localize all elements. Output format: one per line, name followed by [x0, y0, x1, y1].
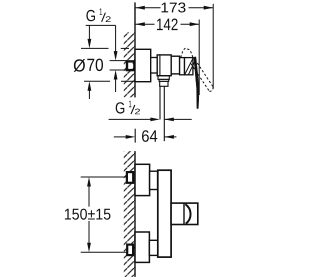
- lever hub diagonal 2: [188, 61, 195, 75]
- dimension 142 line left part: [135, 23, 154, 25]
- outlet pipe right wall: [163, 86, 165, 141]
- arrow 150 top: [87, 177, 91, 187]
- arrow 150 bottom: [87, 243, 91, 253]
- outlet flange: [158, 76, 169, 80]
- mixer body (top view): [157, 55, 171, 76]
- handle knob outer rect: [171, 203, 198, 224]
- 150 dim vertical line lower part: [88, 221, 90, 246]
- lever hub diagonal 1: [185, 58, 193, 74]
- arrow 64 left: [126, 135, 136, 139]
- lower union nut (bottom view): [127, 245, 133, 256]
- 150 dim vertical line upper part: [88, 184, 90, 207]
- wall face line (bottom view): [134, 151, 136, 277]
- arrow 173 right: [204, 6, 214, 10]
- lever ring: [180, 58, 185, 75]
- upper escutcheon (bottom view): [135, 164, 150, 195]
- wall union square nut (top view): [127, 61, 134, 70]
- arrow 142 left: [135, 22, 145, 26]
- handle knob end arc: [185, 204, 190, 224]
- mixer body (bottom view): [158, 170, 171, 257]
- 150 dimension upper leader: [81, 176, 127, 178]
- outlet ring: [159, 79, 169, 81]
- leader line of lower G 1/2 with arrow to pipe: [109, 118, 152, 120]
- dimension 64 left line: [114, 136, 129, 138]
- s-union shaft: [151, 58, 158, 74]
- outlet nut: [160, 81, 168, 86]
- lever dashed edge 2 (open position): [191, 64, 210, 92]
- extension line for 142 (front of lever): [198, 20, 200, 96]
- leader line under G 1/2 (top): [86, 24, 116, 26]
- arrow 142 right: [190, 22, 200, 26]
- dia70 bottom leader line: [84, 80, 110, 82]
- union nut bottom arrow stem: [115, 78, 117, 92]
- label G 1/2 (lower): [116, 101, 140, 115]
- cartridge cap: [171, 56, 179, 74]
- lower escutcheon (bottom view): [135, 232, 149, 262]
- escutcheon (top view side): [135, 49, 151, 81]
- stem from G1/2 leader down to nut top leader: [115, 25, 117, 52]
- lower shaft (bottom view): [149, 240, 158, 255]
- dimension 142 line right part: [181, 23, 200, 25]
- arrow on right leader: [164, 118, 174, 122]
- union nut size leader bottom: [110, 69, 128, 71]
- extension tick at wall for 64: [134, 129, 136, 143]
- label 150 plus/minus 15: [65, 209, 111, 220]
- arrow G1/2 top pointing to union nut: [114, 51, 118, 61]
- outlet pipe left wall: [159, 86, 161, 119]
- arrow dia70 bottom: [88, 81, 92, 91]
- arrow dia70 top: [88, 39, 92, 49]
- leader from pipe to the right: [164, 118, 191, 120]
- arrow lower G1/2 to pipe: [150, 118, 160, 122]
- fraction slash of G 1/2 (lower): [131, 105, 135, 114]
- arrow union nut bottom: [114, 70, 118, 80]
- arrow 173 left: [135, 6, 145, 10]
- label G 1/2 (top): [86, 8, 110, 22]
- arrow 64 right: [164, 135, 174, 139]
- label 173: [162, 3, 186, 13]
- upper union nut (bottom view): [127, 172, 133, 183]
- lever hub: [185, 58, 193, 75]
- dia70 bottom arrow stem: [88, 90, 90, 100]
- 150 dimension lower leader: [81, 251, 128, 253]
- label dia 70: [74, 59, 85, 72]
- dia70 top leader line segments: [81, 47, 109, 49]
- wall hatch (top view): [124, 32, 135, 97]
- lever dashed edge 1 (open position): [195, 60, 213, 88]
- dimension 173 line right part: [189, 7, 214, 9]
- dimension 173 line left part: [135, 7, 160, 9]
- label 64: [142, 130, 157, 142]
- dimension 64 right arrow stem: [164, 136, 176, 138]
- fraction slash of G 1/2 (top): [102, 13, 106, 22]
- lever dashed tip: [209, 87, 213, 91]
- wall hatch (bottom view): [124, 151, 135, 277]
- handle knob divider: [183, 203, 185, 224]
- union nut size leader top: [110, 60, 128, 62]
- wall face line (top view), also extension line for 173/142: [134, 2, 136, 97]
- lever dashed top hook (open position): [181, 48, 193, 58]
- dia70 top arrow stem: [88, 25, 90, 40]
- union pipe end arc (top view): [133, 63, 135, 70]
- lever blade (solid, closed position): [194, 57, 199, 109]
- body ring line: [159, 55, 161, 76]
- extension line for 173 (front of open lever): [212, 4, 214, 89]
- label 142: [157, 19, 178, 31]
- upper shaft (bottom view): [150, 171, 158, 189]
